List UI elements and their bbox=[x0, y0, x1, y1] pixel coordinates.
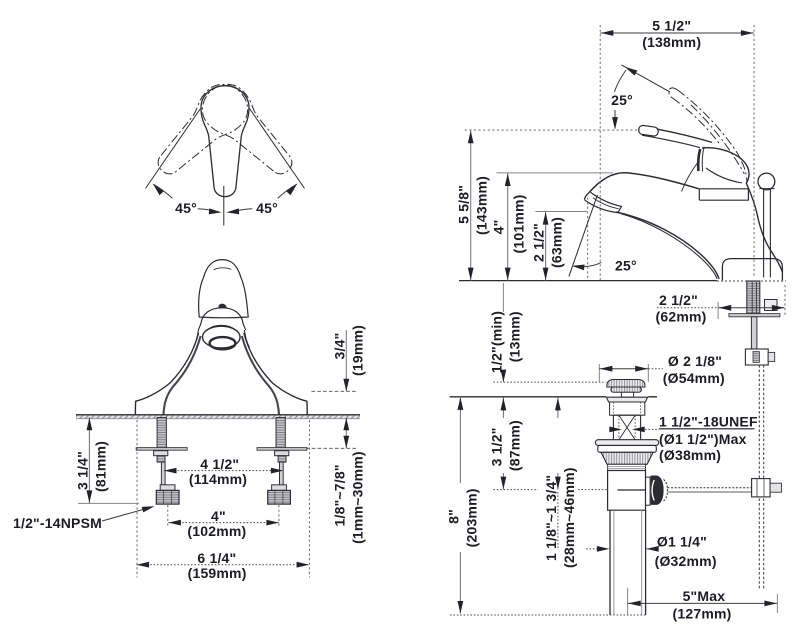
tee body bbox=[608, 471, 646, 511]
joint section bbox=[608, 464, 646, 470]
FRONT VIEW bbox=[13, 260, 365, 582]
spout tip face bbox=[584, 193, 589, 200]
angle leg left bbox=[146, 109, 201, 189]
handle button bbox=[218, 304, 227, 309]
svg-text:45°: 45° bbox=[175, 200, 197, 216]
dim 3 1/4 (81mm) bbox=[78, 502, 139, 504]
left supply tube bbox=[161, 462, 165, 485]
locknut washer bbox=[729, 314, 780, 317]
svg-text:3 1/2": 3 1/2" bbox=[488, 427, 504, 466]
drain flange bbox=[606, 397, 647, 402]
svg-text:(138mm): (138mm) bbox=[642, 34, 701, 50]
spout underside inner curve bbox=[621, 214, 717, 279]
svg-text:1/2"-14NPSM: 1/2"-14NPSM bbox=[13, 515, 102, 531]
threaded neck 1 1/2-18UNEF bbox=[613, 415, 640, 440]
handle cap front slot bbox=[698, 149, 700, 171]
dome side left bbox=[193, 330, 198, 348]
dim 8 (203mm) bbox=[459, 397, 461, 483]
svg-text:1/2"(min): 1/2"(min) bbox=[488, 311, 504, 373]
raised handle top edge bbox=[677, 90, 741, 161]
DRAIN ASSEMBLY bbox=[445, 283, 781, 621]
bell outer right bbox=[244, 333, 307, 415]
clevis to rod block bbox=[752, 479, 771, 497]
tailpiece tube bbox=[609, 510, 611, 615]
dim 1 1/8~1 3/4 (28mm~46mm) bbox=[557, 397, 559, 418]
45 deg arc left bbox=[153, 184, 172, 198]
escutcheon band bbox=[699, 189, 749, 200]
dim 5 1/2 (138mm) bbox=[599, 25, 601, 281]
svg-text:(159mm): (159mm) bbox=[188, 565, 247, 581]
svg-text:(81mm): (81mm) bbox=[92, 441, 108, 492]
handle top extension line bbox=[465, 129, 640, 131]
svg-text:(Ø1 1/2")Max: (Ø1 1/2")Max bbox=[659, 431, 747, 447]
left nut bbox=[157, 456, 165, 462]
svg-text:3/4": 3/4" bbox=[331, 333, 347, 360]
svg-text:(63mm): (63mm) bbox=[549, 217, 565, 268]
sink surface line bbox=[450, 396, 606, 398]
svg-text:Ø 2 1/8": Ø 2 1/8" bbox=[668, 353, 722, 369]
clevis screw tip bbox=[770, 483, 781, 492]
right mounting flange line bbox=[257, 448, 307, 451]
left mounting flange line bbox=[136, 448, 187, 451]
svg-text:(87mm): (87mm) bbox=[506, 420, 522, 471]
spout outlet ellipse bbox=[203, 326, 241, 348]
dome side right bbox=[244, 330, 249, 348]
svg-text:(203mm): (203mm) bbox=[463, 488, 479, 547]
raised handle tip cap bbox=[669, 88, 678, 98]
dim 5 5/8 (143mm) bbox=[470, 130, 472, 281]
dim 4 1/2 (114mm) bbox=[164, 470, 283, 472]
left coupling flange bbox=[160, 485, 175, 491]
popup cap ring bbox=[611, 387, 642, 392]
front handle teardrop bbox=[199, 260, 249, 318]
pivot ball nut (dark) bbox=[651, 476, 664, 505]
rod below locknut bbox=[751, 317, 757, 349]
svg-text:2 1/2": 2 1/2" bbox=[531, 223, 547, 262]
dim O1 1/4 (O32mm) bbox=[586, 548, 598, 550]
svg-text:4 1/2": 4 1/2" bbox=[200, 456, 239, 472]
svg-text:5 1/2": 5 1/2" bbox=[652, 17, 691, 33]
lift rod ball bbox=[758, 173, 775, 190]
dim 3 1/2 (87mm) bbox=[502, 397, 504, 418]
raised handle ray bbox=[621, 65, 670, 92]
svg-text:(Ø32mm): (Ø32mm) bbox=[655, 553, 717, 569]
svg-text:(Ø38mm): (Ø38mm) bbox=[659, 447, 721, 463]
svg-text:5"Max: 5"Max bbox=[683, 588, 726, 604]
45 deg arc right bbox=[278, 184, 297, 198]
handle cap dome bbox=[702, 148, 749, 184]
handle top view solid bbox=[201, 86, 249, 197]
counter hatch band bbox=[76, 416, 360, 419]
spout underside curve bbox=[616, 212, 719, 279]
svg-text:(28mm~46mm): (28mm~46mm) bbox=[561, 467, 577, 568]
tee bottom line bbox=[608, 509, 646, 511]
bottom extension line bbox=[450, 614, 646, 616]
svg-text:(19mm): (19mm) bbox=[349, 325, 365, 376]
mack washer bbox=[595, 440, 658, 446]
handle rotated left 45 (phantom) bbox=[145, 75, 257, 187]
lift rod bbox=[763, 189, 765, 278]
left washer bbox=[154, 451, 168, 456]
popup cap dome bbox=[607, 380, 645, 388]
svg-text:(114mm): (114mm) bbox=[189, 471, 247, 487]
rod level extension bbox=[493, 489, 538, 491]
dim 1/8~7/8 (1mm~30mm) bbox=[306, 447, 357, 449]
dim 2 1/2 (62mm) below counter bbox=[717, 302, 719, 319]
bell inner right bbox=[242, 336, 279, 415]
handle face arc bbox=[214, 268, 232, 270]
TOP VIEW: handle swing bbox=[145, 75, 306, 226]
svg-text:(143mm): (143mm) bbox=[474, 176, 490, 235]
dim 5 Max (127mm) bbox=[627, 588, 629, 615]
svg-text:(62mm): (62mm) bbox=[656, 308, 707, 324]
svg-text:8": 8" bbox=[445, 509, 461, 524]
dim 3/4 (19mm) bbox=[312, 390, 357, 392]
svg-text:1/8"~7/8": 1/8"~7/8" bbox=[331, 464, 347, 526]
lever tip cap bbox=[638, 125, 659, 137]
svg-text:4": 4" bbox=[211, 508, 226, 524]
body right flank bbox=[746, 183, 782, 272]
svg-text:25°: 25° bbox=[615, 257, 637, 273]
dim 4 (101mm) bbox=[497, 172, 614, 174]
right supply tube bbox=[280, 462, 284, 485]
pivot rod bbox=[668, 487, 752, 489]
below-counter shank bbox=[747, 281, 760, 314]
svg-text:1 1/8"~1 3/4": 1 1/8"~1 3/4" bbox=[543, 475, 559, 561]
right nut bbox=[278, 456, 286, 462]
raised handle bottom edge bbox=[672, 98, 720, 144]
svg-text:(13mm): (13mm) bbox=[506, 311, 522, 362]
spout top hump bbox=[589, 173, 699, 193]
dim 4 (102mm) bbox=[167, 505, 169, 528]
svg-text:(102mm): (102mm) bbox=[187, 523, 246, 539]
counter line bbox=[76, 414, 360, 416]
dim 6 1/4 (159mm) bbox=[136, 420, 138, 578]
svg-text:(1mm~30mm): (1mm~30mm) bbox=[349, 451, 365, 544]
dim O 2 1/8 (O54mm) bbox=[598, 364, 600, 382]
tee step bbox=[646, 477, 651, 505]
clevis screw block bbox=[745, 349, 768, 365]
25 deg top annotation bbox=[624, 64, 638, 75]
svg-text:(101mm): (101mm) bbox=[511, 195, 527, 254]
center line below tip bbox=[223, 186, 225, 226]
svg-text:2 1/2": 2 1/2" bbox=[659, 292, 698, 308]
angle leg right bbox=[250, 109, 305, 189]
right washer bbox=[275, 451, 289, 456]
svg-text:1 1/2"-18UNEF: 1 1/2"-18UNEF bbox=[659, 413, 758, 429]
popup neck bbox=[621, 392, 633, 397]
svg-text:Ø1 1/4": Ø1 1/4" bbox=[657, 533, 707, 549]
UNEF dim arrows bbox=[645, 428, 659, 430]
body dome arch bbox=[201, 308, 243, 324]
dim 1/2 min (13mm) bbox=[493, 381, 606, 383]
locknut bbox=[601, 452, 653, 464]
spout tip vertical reference bbox=[587, 193, 589, 281]
right hex coupling bbox=[268, 490, 291, 504]
svg-text:(Ø54mm): (Ø54mm) bbox=[663, 370, 725, 386]
raised handle pivot arc bbox=[741, 161, 747, 183]
flange body bbox=[610, 402, 645, 415]
bell inner left bbox=[163, 336, 200, 415]
svg-text:45°: 45° bbox=[256, 200, 278, 216]
raised handle center line bbox=[691, 105, 745, 174]
friction washer bbox=[598, 445, 657, 452]
svg-text:3 1/4": 3 1/4" bbox=[74, 451, 90, 490]
cap-body joint line bbox=[682, 160, 700, 192]
pivot rod inside tube bbox=[617, 489, 646, 491]
aerator ellipse bbox=[210, 337, 236, 349]
handle rotated right 45 (phantom) bbox=[193, 75, 305, 187]
svg-text:5 5/8": 5 5/8" bbox=[456, 185, 472, 224]
right coupling flange bbox=[272, 485, 287, 491]
svg-text:25°: 25° bbox=[611, 92, 633, 108]
dim 2 1/2 (63mm) bbox=[535, 211, 587, 213]
handle cap parting line bbox=[706, 168, 742, 183]
SIDE VIEW bbox=[456, 17, 786, 589]
spout stream line 25 deg bbox=[569, 195, 598, 277]
svg-text:6 1/4": 6 1/4" bbox=[197, 550, 236, 566]
base escutcheon arch bbox=[722, 259, 782, 281]
left shank bbox=[157, 418, 166, 450]
lift rod guide block bbox=[765, 300, 778, 311]
aerator slot bbox=[585, 192, 622, 212]
right shank bbox=[276, 418, 285, 450]
svg-text:4": 4" bbox=[491, 220, 507, 235]
svg-text:(127mm): (127mm) bbox=[673, 605, 732, 621]
counter line side bbox=[459, 280, 717, 282]
lever top line bbox=[658, 129, 713, 142]
bell outer left bbox=[135, 333, 198, 415]
clevis strap bbox=[758, 365, 760, 589]
left hex coupling 1/2-14NPSM bbox=[156, 490, 179, 504]
pivot ball cap bbox=[664, 480, 668, 501]
lever bottom line bbox=[642, 135, 700, 147]
